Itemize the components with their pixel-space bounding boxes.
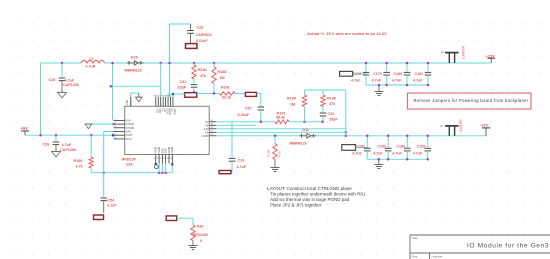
svg-text:C185: C185 [417, 145, 426, 149]
capacitor C183 [387, 136, 389, 148]
wire left vertical from bus to +5V rail [40, 63, 42, 135]
svg-text:93.1k: 93.1k [222, 96, 232, 100]
svg-text:C32: C32 [328, 112, 335, 116]
ground at U2 pin2 wire [85, 123, 92, 125]
wire U2 ILIM net [216, 128, 345, 130]
svg-text:Actual +/- 15 V rails are scal: Actual +/- 15 V rails are scaled to be 1… [307, 31, 387, 36]
svg-text:PVIN(B): PVIN(B) [126, 124, 135, 126]
svg-text:C25: C25 [49, 78, 56, 82]
svg-text:C31: C31 [180, 80, 187, 84]
svg-text:IO Module for the Gen3: IO Module for the Gen3 [467, 243, 549, 250]
wire U2 VO net [216, 121, 275, 123]
svg-text:Add six thermal vias in large: Add six thermal vias in large PGND pad [270, 197, 350, 202]
svg-text:C57: C57 [245, 106, 252, 110]
diode D11 [301, 134, 303, 138]
capacitor C57 [258, 106, 265, 108]
svg-text:47k: 47k [200, 74, 207, 78]
wire vertical bus to U2 top pin [160, 63, 162, 97]
capacitor C26 [55, 135, 57, 141]
svg-text:PGND: PGND [159, 147, 161, 154]
node U2 left pin dots [112, 123, 115, 126]
svg-text:CAP0603: CAP0603 [196, 33, 212, 37]
node -15V bus dots [274, 135, 277, 138]
svg-text:-15V: -15V [480, 122, 489, 127]
svg-text:+15V: +15V [486, 53, 496, 58]
svg-text:LAYOUT: Construct local CTRL: LAYOUT: Construct local CTRLGND plane [267, 186, 352, 191]
svg-text:RES1206: RES1206 [193, 233, 208, 237]
capacitor C28 [170, 23, 191, 25]
capacitor C32 [320, 112, 327, 114]
resistor R194 [304, 90, 306, 95]
wire R191 pad to C57 [257, 94, 261, 107]
component pad right of R191 [245, 92, 256, 96]
capacitor C181 [427, 63, 429, 72]
svg-text:PVIN(B): PVIN(B) [126, 128, 135, 130]
svg-text:R191: R191 [221, 85, 230, 89]
svg-text:VDD: VDD [156, 108, 158, 113]
svg-text:SVIN: SVIN [126, 132, 132, 134]
svg-text:4.7uF: 4.7uF [65, 78, 75, 82]
wire top bus +15V net [41, 62, 82, 64]
node rail dots [39, 134, 42, 137]
svg-text:R188: R188 [218, 70, 227, 74]
svg-text:GND: GND [162, 148, 164, 153]
svg-text:PG: PG [161, 108, 163, 112]
svg-text:0.33uF: 0.33uF [238, 113, 250, 117]
wire U2 pin2 to ground [88, 123, 113, 125]
svg-text:PGD: PGD [127, 99, 129, 104]
svg-text:4.7uF: 4.7uF [413, 152, 423, 156]
svg-text:0.1uF: 0.1uF [107, 204, 117, 208]
svg-text:CAP1206: CAP1206 [63, 83, 79, 87]
wire R81 link [177, 218, 193, 225]
svg-text:CAP1206: CAP1206 [60, 148, 76, 152]
component pad left of R191 [185, 93, 197, 98]
component footprint pad below C54 [94, 215, 104, 220]
svg-text:PGND: PGND [169, 147, 171, 154]
resistor R191 inline [220, 92, 236, 95]
svg-text:1M: 1M [290, 103, 295, 107]
ground at U2 pin40 [135, 96, 142, 98]
svg-text:C184: C184 [396, 145, 405, 149]
svg-text:R196: R196 [267, 149, 271, 157]
series pad bank1 [340, 71, 353, 76]
node C179 dots [385, 62, 388, 65]
node C181 dots [427, 62, 430, 65]
svg-text:C183: C183 [377, 145, 386, 149]
svg-text:U2A: U2A [126, 163, 133, 167]
node bus-left corner dot [61, 62, 64, 65]
svg-text:Number: Number [432, 255, 443, 259]
svg-text:Size: Size [412, 255, 418, 259]
wire R193 to divider [289, 121, 323, 123]
svg-text:4.7uF: 4.7uF [392, 152, 402, 156]
svg-text:4.7k: 4.7k [278, 151, 282, 157]
svg-text:4.7uF: 4.7uF [392, 78, 402, 82]
svg-text:0.01uF: 0.01uF [196, 39, 208, 43]
svg-text:SYNC: SYNC [126, 139, 133, 141]
resistor R193 [275, 120, 289, 124]
wire bank1 bottom rail [366, 84, 428, 86]
node bus junction dots [159, 62, 162, 65]
svg-text:R195: R195 [327, 96, 336, 100]
svg-text:+5V: +5V [21, 126, 29, 131]
svg-text:4.7uF: 4.7uF [351, 78, 361, 82]
svg-text:C178: C178 [353, 72, 362, 76]
wire C28 to bus and IC pin [169, 24, 171, 97]
node C184 dots [406, 135, 409, 138]
wire divider top rung [305, 89, 346, 91]
svg-text:FREQ: FREQ [173, 108, 175, 115]
svg-text:R189: R189 [74, 159, 83, 163]
svg-text:C182: C182 [356, 145, 365, 149]
capacitor C182 [366, 136, 368, 148]
svg-text:RUN: RUN [126, 120, 131, 122]
svg-text:4.7uF: 4.7uF [373, 152, 383, 156]
resistor R195 [322, 90, 324, 95]
svg-text:VDD: VDD [158, 108, 160, 113]
U2 right pins [209, 121, 216, 123]
svg-text:SS: SS [170, 108, 172, 112]
wire bank2 bottom rail [367, 158, 427, 160]
svg-text:JUMPER: JUMPER [459, 119, 463, 133]
svg-text:C26: C26 [43, 142, 50, 146]
svg-text:PGND: PGND [172, 147, 174, 154]
svg-text:FB: FB [205, 125, 208, 127]
capacitor C178 [365, 63, 367, 72]
component pad below C19 [219, 171, 231, 174]
svg-text:MODE: MODE [168, 108, 170, 115]
wire bus to U2 pin1 [112, 63, 114, 120]
svg-text:VO: VO [205, 122, 209, 124]
svg-text:4.7uF: 4.7uF [372, 78, 382, 82]
svg-text:MBRM128: MBRM128 [125, 69, 142, 73]
component pad below C28 [186, 44, 197, 49]
svg-text:C179: C179 [373, 72, 382, 76]
svg-text:ILIM: ILIM [204, 129, 209, 131]
node U2 bottom pin1 no-connect [155, 163, 158, 166]
wire bank1 pad link [353, 72, 366, 73]
svg-text:Remove Jumpers for Powering: Remove Jumpers for Powering board from b… [414, 98, 529, 103]
svg-text:D19: D19 [131, 56, 138, 60]
jumper JP3 [445, 125, 459, 127]
svg-text:R193: R193 [277, 111, 286, 115]
capacitor C54 [103, 173, 105, 197]
wire divider right vertical [345, 90, 347, 136]
svg-text:4.7uF: 4.7uF [237, 165, 247, 169]
node C180 dots [406, 62, 409, 65]
svg-text:L1: L1 [90, 57, 94, 61]
node C183 dots [387, 135, 390, 138]
U2 bottom pins [155, 155, 157, 164]
svg-text:4.7k: 4.7k [76, 164, 84, 168]
svg-text:R81: R81 [197, 225, 204, 229]
node C182 dots [366, 135, 369, 138]
wire bottom ctrl-gnd rail [91, 172, 172, 174]
node U2 bottom pin6 [171, 163, 174, 166]
capacitor C19 [231, 122, 233, 158]
capacitor C180 [406, 63, 408, 72]
svg-text:R182: R182 [198, 68, 207, 72]
svg-text:0: 0 [200, 239, 202, 243]
ground bank1 [378, 85, 380, 92]
ground bank2 [378, 159, 380, 164]
series pad bank2 [342, 145, 356, 151]
svg-text:C19: C19 [238, 159, 245, 163]
svg-text:C180: C180 [394, 72, 403, 76]
svg-text:EN: EN [163, 108, 165, 112]
wire U2 COMP / -15V bus [216, 135, 299, 137]
wire bottom pins to rail [159, 164, 166, 173]
svg-text:MP8513P: MP8513P [122, 157, 137, 161]
resistor R188 [213, 63, 215, 67]
U2 left pins [114, 119, 125, 121]
wire rung to left vertical [111, 85, 161, 87]
svg-text:Tie planes together underneath: Tie planes together underneath device wi… [270, 192, 366, 197]
svg-text:C181: C181 [415, 72, 424, 76]
capacitor C31 [193, 79, 195, 84]
svg-text:MBRM128: MBRM128 [290, 141, 307, 145]
U2 top pins [155, 97, 157, 106]
resistor R81 [191, 225, 195, 241]
capacitor C179 [386, 63, 388, 72]
svg-text:COMP: COMP [201, 136, 208, 138]
wire feedback line [197, 93, 220, 95]
U2 pin40 gnd jog [131, 93, 139, 106]
svg-text:JUMPER: JUMPER [461, 45, 465, 59]
wire U2 SS net [216, 131, 345, 133]
svg-text:15pF: 15pF [178, 85, 187, 89]
svg-text:R194: R194 [287, 96, 297, 100]
svg-text:85.4k: 85.4k [276, 116, 286, 120]
wire U2 FB stub [216, 124, 256, 126]
ground below C25 [58, 91, 67, 93]
capacitor C184 [406, 136, 408, 148]
svg-text:C54: C54 [108, 198, 116, 202]
svg-text:SGND: SGND [126, 135, 133, 137]
capacitor C185 [427, 136, 429, 148]
resistor R182 [193, 63, 195, 65]
svg-text:47k: 47k [329, 102, 336, 106]
node C185 dots [426, 135, 429, 138]
ground below R196 [271, 167, 280, 169]
svg-text:15pF: 15pF [329, 117, 338, 121]
node bottom rail dots [102, 171, 105, 174]
capacitor C25 [61, 63, 63, 77]
wire +5V rail [25, 134, 114, 136]
node C178 dots [365, 62, 368, 65]
svg-text:PGND: PGND [156, 147, 158, 154]
note remove-jumpers warning box [408, 93, 532, 109]
resistor R189 [90, 135, 92, 157]
svg-text:1M: 1M [220, 76, 225, 80]
svg-text:4.7uF: 4.7uF [413, 78, 423, 82]
svg-text:4.7uF: 4.7uF [62, 143, 72, 147]
svg-text:Title: Title [412, 236, 418, 240]
wire U2 pin4 to bottom rail [104, 132, 114, 173]
inductor L1 [81, 60, 105, 63]
wire bank2 pad link [356, 147, 368, 149]
op-amp regulator U2 MP8513P body [125, 106, 210, 154]
svg-text:C28: C28 [197, 26, 204, 30]
title block frame [410, 235, 550, 259]
ground below C26 [52, 151, 61, 153]
svg-text:Place JP2 & JP3 together: Place JP2 & JP3 together [270, 203, 322, 208]
wire top-pin feedback stub [168, 93, 185, 95]
svg-text:4.7uH: 4.7uH [86, 64, 96, 68]
svg-text:SYNC: SYNC [166, 108, 168, 115]
ground below R81 [189, 245, 198, 247]
svg-text:SS: SS [205, 132, 209, 134]
diode D19 [128, 61, 130, 65]
svg-text:D11: D11 [303, 128, 309, 132]
resistor R196 to ground [274, 136, 276, 144]
svg-text:4.7uF: 4.7uF [352, 152, 362, 156]
svg-text:GND: GND [166, 148, 168, 153]
jumper JP2 [445, 52, 459, 54]
component pad R81 link [166, 216, 177, 221]
